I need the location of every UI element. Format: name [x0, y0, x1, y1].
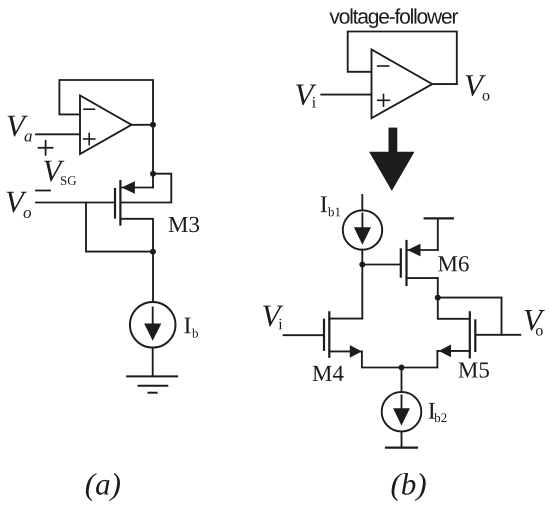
- minus polarity of VSG: [36, 190, 50, 192]
- node A1 output junction: [150, 122, 156, 128]
- transistor M5 gate bar: [474, 320, 476, 351]
- wire M6 gate: [362, 264, 401, 266]
- big implication arrow: [369, 128, 414, 191]
- wire Ib2 to ground: [401, 432, 403, 448]
- wire feedback loop A1 output to minus input: [59, 80, 153, 125]
- label M6: [438, 256, 469, 271]
- node Ib1 M6-gate M4-drain junction: [359, 262, 365, 268]
- label M5: [459, 362, 489, 377]
- label Ib2: [429, 403, 435, 419]
- label Vo bottom: [525, 310, 545, 331]
- op-amp A1 plus input label: [84, 134, 95, 145]
- wire Vi to M4 gate: [284, 334, 324, 336]
- wire Ib1 top stub: [361, 195, 363, 210]
- transistor M5 channel bar: [469, 312, 471, 357]
- transistor M6 gate bar: [400, 249, 402, 276]
- wire A1 output down to M3 source: [152, 125, 154, 188]
- wire Vo to M3 gate: [36, 202, 115, 204]
- op-amp A1 minus input label: [84, 108, 95, 110]
- wire M4 source corner to tail: [362, 351, 402, 367]
- arrow M4 source pointing to tail: [350, 345, 362, 358]
- label (a): [86, 473, 120, 501]
- label VSG: [44, 161, 64, 182]
- transistor M4 channel bar: [328, 312, 330, 357]
- arrow M6 source pointing into channel: [408, 244, 421, 257]
- wire M3 drain to current source Ib: [152, 252, 154, 302]
- label voltage-follower: [329, 8, 458, 28]
- wire M3 source stub: [122, 187, 154, 189]
- label Vo top: [466, 75, 486, 96]
- transistor M3 channel bar: [119, 181, 121, 225]
- wire M5 source stub: [437, 350, 469, 352]
- label Va: [8, 116, 28, 137]
- wire Ib1 bottom to node: [361, 250, 363, 265]
- wire feedback loop A2: [348, 32, 457, 85]
- label (b): [392, 473, 426, 501]
- wire Vi input top: [321, 94, 371, 96]
- supply bar VDD: [425, 217, 453, 219]
- label Ib: [184, 318, 190, 334]
- wire Ib to ground: [152, 348, 154, 377]
- wire tail down to Ib2: [401, 368, 403, 393]
- wire Va input: [36, 133, 80, 135]
- wire M5 drain stub: [438, 298, 470, 319]
- node M3 source-bulk tie: [150, 171, 156, 177]
- current source Ib2 circle: [382, 392, 422, 432]
- op-amp A2: [372, 50, 433, 119]
- transistor M3 gate bar: [114, 189, 116, 218]
- wire M6 drain stub: [407, 278, 438, 298]
- ground bar of circuit b: [386, 447, 417, 449]
- ground symbol of circuit a: [127, 376, 177, 392]
- label M4: [313, 366, 344, 381]
- wire M4 source stub: [329, 350, 362, 352]
- node M6 drain junction: [435, 295, 441, 301]
- wire A2 output: [432, 83, 457, 85]
- node M3 drain junction: [150, 249, 156, 255]
- wire M4 drain stub: [329, 318, 362, 320]
- wire M6 drain to M5 gate riser: [438, 297, 502, 299]
- label Vo: [7, 192, 27, 213]
- wire M5 gate riser: [501, 298, 503, 335]
- node tail junction: [399, 365, 405, 371]
- wire M5 gate to Vo: [475, 334, 520, 336]
- wire M6 source to supply: [437, 218, 439, 250]
- plus polarity of VSG: [39, 141, 53, 155]
- op-amp A1: [80, 96, 132, 155]
- wire M6 source stub: [408, 249, 438, 251]
- arrow M3 source pointing into channel: [122, 181, 135, 194]
- current source Ib2 arrow: [401, 395, 403, 412]
- wire M3 drain stub: [120, 219, 153, 252]
- transistor M4 gate bar: [323, 320, 325, 350]
- current source Ib arrow: [152, 308, 154, 327]
- wire M3 bulk branch: [122, 174, 171, 203]
- label Vi bottom: [263, 306, 283, 327]
- wire A1 output: [132, 124, 154, 126]
- current source Ib circle: [130, 302, 176, 348]
- label M3: [169, 217, 199, 232]
- transistor M6 channel bar: [405, 241, 407, 285]
- label Vi top: [296, 85, 316, 106]
- wire Vo branch to M3 drain: [86, 203, 153, 252]
- op-amp A2 plus input label: [378, 94, 390, 106]
- wire junction down to M4 drain: [361, 265, 363, 319]
- label Ib1: [321, 196, 327, 212]
- arrow M5 source pointing to tail: [439, 345, 451, 358]
- op-amp A2 minus input label: [378, 65, 389, 67]
- wire M5 source corner to tail: [402, 351, 438, 368]
- current source Ib1 arrow: [361, 214, 363, 232]
- current source Ib1 circle: [343, 210, 382, 249]
